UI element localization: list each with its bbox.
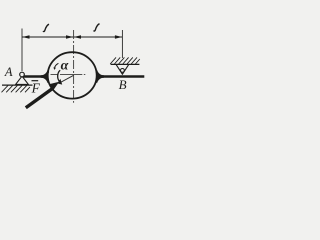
hanging pin support triangle at B bbox=[116, 65, 128, 75]
label l (left) bbox=[43, 24, 49, 31]
vertical centre line of disc bbox=[73, 30, 75, 103]
svg-text:A: A bbox=[4, 65, 13, 79]
paper background bbox=[0, 0, 150, 138]
pin support A: triangle bbox=[16, 76, 29, 84]
beam left segment bbox=[22, 75, 45, 77]
left beam-disc fillet bbox=[41, 70, 49, 83]
svg-text:F: F bbox=[31, 81, 41, 96]
beam right segment bbox=[99, 75, 144, 77]
dimension line l (left) bbox=[22, 35, 74, 38]
pin A bbox=[20, 72, 25, 77]
moment arc arrow inside disc bbox=[58, 70, 61, 81]
horizontal centre line of disc bbox=[51, 74, 86, 76]
ceiling line at B bbox=[111, 63, 140, 65]
force F arrow shaft bbox=[26, 89, 52, 108]
dimension line l (right) bbox=[74, 35, 123, 38]
line of action of F inside disc bbox=[60, 75, 74, 83]
hatching under A bbox=[2, 85, 30, 92]
hanger link at B bbox=[121, 30, 123, 58]
right beam-disc fillet bbox=[96, 70, 104, 83]
ceiling hatching bbox=[110, 57, 140, 64]
label l (right) bbox=[94, 24, 100, 31]
pin at B support bbox=[121, 69, 125, 73]
ground line at A bbox=[2, 84, 33, 86]
disc bbox=[48, 52, 97, 98]
extension line at A bbox=[21, 29, 23, 72]
svg-text:B: B bbox=[119, 77, 127, 92]
svg-text:α: α bbox=[61, 58, 69, 73]
angle alpha arc bbox=[55, 63, 59, 68]
label F with bar bbox=[32, 80, 39, 82]
force F arrowhead bbox=[49, 82, 59, 91]
